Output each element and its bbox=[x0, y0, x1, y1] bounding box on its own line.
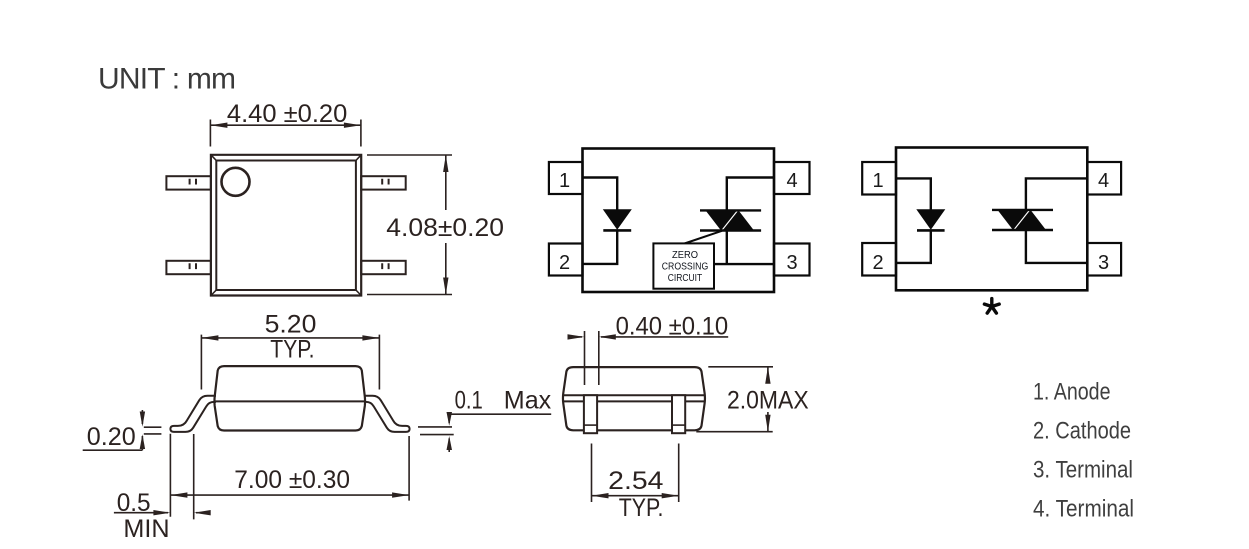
svg-text:ZERO: ZERO bbox=[672, 249, 698, 261]
dimension 7.00 left arrowhead bbox=[170, 492, 187, 497]
end view left lead foot tick bbox=[584, 424, 597, 426]
svg-text:4.40 ±0.20: 4.40 ±0.20 bbox=[227, 100, 347, 128]
svg-text:0.1: 0.1 bbox=[455, 387, 483, 415]
schematic1 triac gate wire to ZCC bbox=[685, 231, 723, 244]
lead bottom-left bbox=[166, 261, 211, 274]
dimension 2.54 line bbox=[592, 495, 679, 497]
dimension 0.1 upper arrow bbox=[448, 414, 450, 423]
dimension 4.08 extension lines bbox=[367, 155, 452, 295]
pin 1 indicator circle bbox=[222, 168, 250, 196]
svg-text:2. Cathode: 2. Cathode bbox=[1033, 418, 1131, 445]
svg-text:4.08±0.20: 4.08±0.20 bbox=[386, 214, 504, 242]
svg-text:5.20: 5.20 bbox=[265, 311, 317, 339]
side view right lead bbox=[364, 396, 410, 432]
dimension 7.00 line bbox=[170, 494, 409, 496]
dimension 5.20 extension lines bbox=[201, 335, 379, 390]
schematic1 wire LED cathode to pin2 bbox=[583, 230, 618, 264]
schematic1 package body rectangle bbox=[583, 149, 775, 293]
svg-text:Max: Max bbox=[504, 387, 552, 415]
dimension 0.5 leader line with right-pointing arrowhead bbox=[114, 512, 168, 514]
dimension 2.54 extension lines bbox=[592, 444, 679, 503]
dimension 0.20 lower arrow bbox=[141, 436, 143, 450]
schematic2 LED cathode bar bbox=[917, 229, 945, 232]
svg-text:4: 4 bbox=[786, 170, 797, 192]
dimension 0.5 right arrow bbox=[196, 512, 210, 514]
schematic1 triac left triangle bbox=[706, 210, 738, 230]
schematic1 pin box 3 bbox=[774, 244, 810, 276]
dimension 4.08 line (broken for text) bbox=[445, 155, 447, 295]
side view left lead bbox=[170, 396, 216, 432]
dimension 4.40 right arrowhead bbox=[344, 123, 361, 128]
lead top-right bbox=[361, 176, 406, 189]
schematic2 wire pin1 to LED anode bbox=[896, 178, 931, 209]
side view body parting line bbox=[214, 400, 365, 402]
dimension 4.08 bottom arrowhead bbox=[443, 278, 448, 295]
dimension 2.54 right arrowhead bbox=[662, 493, 679, 498]
dimension 5.20 right arrowhead bbox=[362, 335, 379, 340]
svg-text:3: 3 bbox=[1098, 252, 1109, 274]
svg-text:3: 3 bbox=[786, 252, 797, 274]
dimension 0.40 leader line with left-pointing arrowhead bbox=[601, 336, 728, 338]
schematic2 wire pin4 to triac MT1 bbox=[1026, 178, 1087, 210]
end view left lead bbox=[584, 395, 597, 433]
schematic1 zero crossing circuit box bbox=[653, 243, 714, 288]
end view body outline bbox=[563, 367, 705, 430]
svg-text:4: 4 bbox=[1098, 170, 1109, 192]
schematic1 triac top bar bbox=[700, 209, 761, 211]
svg-text:2: 2 bbox=[559, 252, 570, 274]
svg-text:CIRCUIT: CIRCUIT bbox=[668, 272, 703, 284]
svg-text:TYP.: TYP. bbox=[270, 336, 314, 364]
schematic1 triac bottom bar bbox=[700, 229, 761, 231]
schematic2 triac right triangle bbox=[1015, 210, 1047, 230]
schematic2 wire LED cathode to pin2 bbox=[896, 230, 931, 263]
dimension 2.0 line (broken for text) bbox=[767, 367, 769, 432]
svg-text:CROSSING: CROSSING bbox=[662, 261, 709, 273]
svg-text:TYP.: TYP. bbox=[619, 494, 664, 522]
schematic1 pin box 4 bbox=[774, 162, 810, 194]
dimension 5.20 left arrowhead bbox=[201, 335, 218, 340]
dimension 4.40 left arrowhead bbox=[210, 123, 227, 128]
lead bottom-right tick marks bbox=[382, 263, 388, 269]
lead top-left tick marks bbox=[190, 179, 196, 185]
package body inner outline bbox=[216, 161, 356, 291]
dimension 2.54 left arrowhead bbox=[592, 493, 609, 498]
schematic2 pin box 4 bbox=[1087, 162, 1121, 195]
lead top-left bbox=[166, 176, 211, 189]
schematic1 wire triac MT2 to pin3 bbox=[714, 231, 774, 265]
svg-text:2.54: 2.54 bbox=[608, 467, 663, 495]
schematic1 wire pin4 to triac MT1 bbox=[727, 178, 774, 211]
svg-text:2.0MAX: 2.0MAX bbox=[727, 387, 809, 415]
schematic2 pin box 3 bbox=[1087, 243, 1121, 276]
schematic1 triac right triangle bbox=[723, 210, 755, 230]
lead bottom-left tick marks bbox=[190, 263, 196, 269]
lead top-right tick marks bbox=[382, 179, 388, 185]
dimension 5.20 line bbox=[201, 337, 379, 339]
dimension 0.20 reference ticks bbox=[144, 427, 162, 434]
dimension 0.1 reference lines bbox=[418, 427, 454, 435]
end view parting lines bbox=[563, 395, 705, 401]
dimension 0.1 leader underline bbox=[449, 413, 551, 415]
dimension 4.40 line bbox=[210, 124, 361, 126]
svg-text:UNIT : mm: UNIT : mm bbox=[98, 63, 235, 96]
svg-text:1. Anode: 1. Anode bbox=[1033, 379, 1111, 406]
dimension 2.0 bottom arrowhead bbox=[765, 415, 770, 432]
schematic2 asterisk mark bbox=[984, 299, 999, 314]
dimension 0.40 extension lines bbox=[585, 331, 599, 385]
dimension 2.0 top arrowhead bbox=[765, 367, 770, 384]
schematic2 wire triac MT2 to pin3 bbox=[1026, 230, 1087, 263]
lead bottom-right bbox=[361, 261, 406, 274]
svg-text:2: 2 bbox=[872, 252, 883, 274]
schematic2 triac top bar bbox=[992, 209, 1053, 211]
schematic1 LED D1 triangle bbox=[603, 209, 632, 230]
svg-text:1: 1 bbox=[559, 170, 570, 192]
dimension 0.1 lower arrow bbox=[448, 439, 450, 453]
svg-text:MIN: MIN bbox=[123, 515, 169, 543]
schematic2 package body rectangle bbox=[896, 148, 1087, 291]
dimension 0.40 left arrow bbox=[568, 336, 582, 338]
schematic1 pin box 2 bbox=[549, 244, 583, 276]
end view right lead bbox=[672, 395, 685, 433]
schematic2 triac bottom bar bbox=[992, 229, 1053, 231]
schematic2 pin box 2 bbox=[862, 243, 896, 276]
dimension 4.08 top arrowhead bbox=[443, 155, 448, 172]
schematic1 LED cathode bar bbox=[603, 229, 631, 232]
package body outer outline bbox=[211, 155, 361, 296]
dimension 4.40 extension lines bbox=[210, 120, 361, 147]
package corner chamfer lines bbox=[211, 155, 361, 296]
svg-text:1: 1 bbox=[872, 170, 883, 192]
dimension 7.00 right arrowhead bbox=[392, 492, 409, 497]
svg-text:4. Terminal: 4. Terminal bbox=[1033, 496, 1134, 523]
dimension 7.00 extension lines bbox=[170, 434, 409, 520]
schematic2 triac left triangle bbox=[998, 210, 1030, 230]
schematic1 wire pin1 to LED anode bbox=[583, 178, 618, 210]
svg-text:7.00 ±0.30: 7.00 ±0.30 bbox=[234, 466, 350, 494]
side view body outline bbox=[214, 366, 365, 430]
dimension 0.20 upper arrow bbox=[141, 410, 143, 424]
dimension 2.0 extension lines bbox=[696, 367, 773, 432]
svg-text:3. Terminal: 3. Terminal bbox=[1033, 457, 1133, 484]
schematic2 pin box 1 bbox=[862, 162, 896, 195]
schematic1 pin box 1 bbox=[549, 162, 583, 194]
dimension 0.20 leader underline bbox=[83, 449, 143, 451]
svg-text:0.20: 0.20 bbox=[87, 423, 136, 451]
end view right lead foot tick bbox=[672, 424, 685, 426]
schematic2 LED D1 triangle bbox=[916, 209, 945, 230]
